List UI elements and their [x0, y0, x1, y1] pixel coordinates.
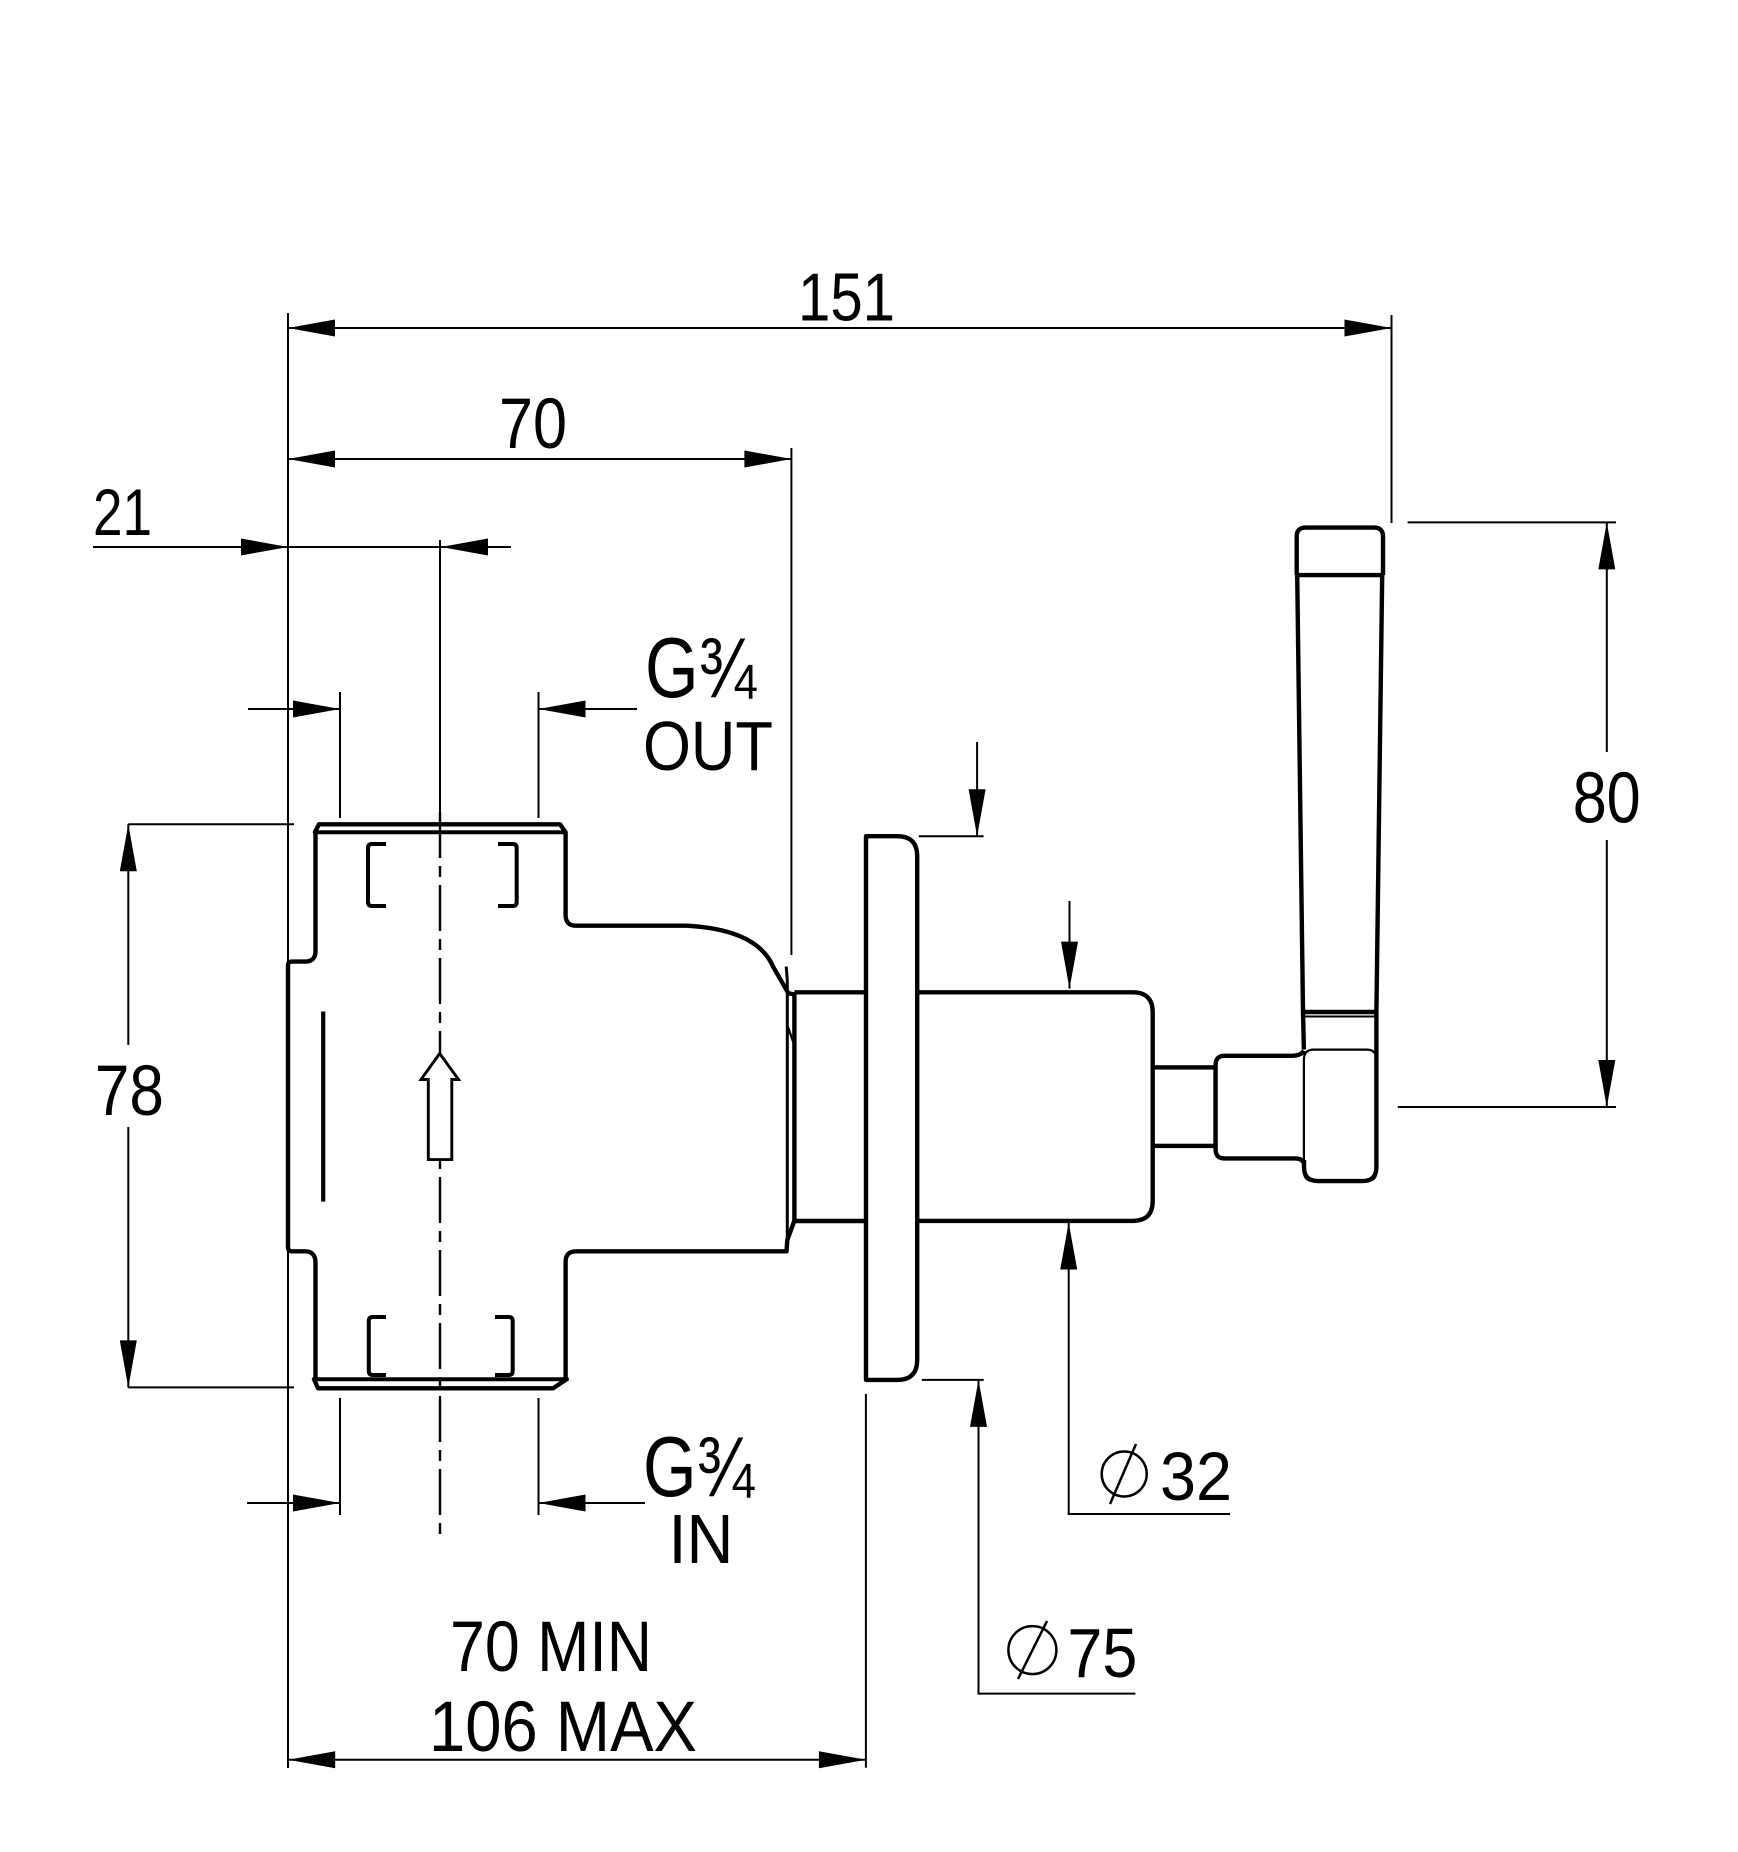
extension line 70 right (body tip) [790, 448, 792, 955]
hub to cap connector bottom [1296, 1158, 1304, 1164]
port centerline (dash-dot) [439, 812, 441, 1540]
svg-text:70 MIN: 70 MIN [450, 1608, 652, 1687]
body tip inner edge [786, 967, 787, 1241]
dimension 80 bottom tick [1398, 1106, 1616, 1108]
dimension G3/4 IN line right part [539, 1502, 646, 1504]
dimension 80 line lower segment [1606, 840, 1608, 1107]
handle hub [1216, 1056, 1296, 1159]
wall flange escutcheon [866, 836, 917, 1380]
arrowhead dia32 down [1061, 942, 1078, 989]
arrowhead bottom left [288, 1751, 335, 1768]
svg-text:IN: IN [669, 1500, 734, 1578]
dimension 151 line [288, 327, 1392, 329]
arrowhead dia75 up [970, 1380, 987, 1427]
arrowhead 78 up [120, 824, 137, 871]
arrowhead OUT right [539, 701, 586, 718]
dimension 78 line upper segment [127, 824, 129, 1045]
hidden thread bracket top-left [368, 844, 386, 906]
dia32 top arrow line [1069, 901, 1071, 989]
lever shaft right edge [1376, 575, 1382, 1012]
lever bottom cap thick lower edge [1304, 1012, 1376, 1181]
dimension 78 bottom tick [128, 1386, 294, 1388]
lever joint thin line [1303, 1016, 1376, 1018]
valve body outline [288, 824, 794, 1388]
body inner face line [321, 1012, 325, 1202]
extension line 151 right (lever top) [1391, 315, 1393, 523]
arrowhead IN right [539, 1495, 586, 1512]
arrowhead IN left [293, 1495, 340, 1512]
arrowhead bottom right [819, 1751, 866, 1768]
hidden thread bracket top-right [498, 844, 517, 906]
lever top cap joint line [1297, 573, 1383, 577]
dia75 diameter symbol [1008, 1626, 1056, 1674]
extension line left reference (body left face) [287, 313, 289, 1768]
dia75 leader line [979, 1380, 1136, 1694]
svg-text:78: 78 [95, 1052, 164, 1131]
svg-text:151: 151 [798, 260, 895, 336]
extension line OUT port left [339, 692, 341, 818]
svg-text:75: 75 [1067, 1614, 1137, 1692]
arrowhead OUT left [293, 701, 340, 718]
svg-text:80: 80 [1573, 759, 1641, 839]
arrowhead dia32 up [1060, 1223, 1077, 1270]
lever shaft left edge [1297, 575, 1304, 1050]
dimension 70 line [288, 458, 791, 460]
arrowhead 70 right [744, 451, 791, 468]
lever top cap [1297, 528, 1383, 576]
arrowhead 21 right (outside, pointing left at centerline) [441, 539, 488, 556]
dia32 leader line [1069, 1223, 1230, 1515]
extension line OUT port right [538, 692, 540, 818]
dimension 78 line lower segment [127, 1127, 129, 1387]
extension line port centerline (solid upper part) [439, 540, 441, 812]
arrowhead 78 down [120, 1340, 137, 1387]
body bottom lip seam [316, 1377, 567, 1381]
arrowhead 151 left [288, 320, 335, 337]
body top lip seam [316, 830, 566, 834]
dimension 80 top tick [1408, 521, 1616, 523]
lever bottom cap (thin outline) [1304, 1050, 1377, 1182]
dimension G3/4 OUT line left part [248, 708, 340, 710]
dimension G3/4 IN line left part [247, 1502, 340, 1504]
spindle pipe top edge [794, 990, 866, 994]
dimension G3/4 OUT line right part [539, 708, 638, 710]
svg-text:OUT: OUT [643, 707, 773, 785]
dia75 top arrow line [976, 742, 978, 836]
arrowhead dia75 down [969, 789, 986, 836]
dimension 70min/106max line [288, 1759, 866, 1761]
handle stem [1153, 1067, 1216, 1146]
extension line IN port right [538, 1398, 540, 1515]
dia75 bottom tick [922, 1379, 984, 1381]
svg-text:G¾: G¾ [645, 621, 757, 716]
hidden thread bracket bottom-left [369, 1317, 386, 1375]
arrowhead 21 left (outside, pointing right at ref line) [241, 539, 288, 556]
dia32 diameter symbol [1102, 1452, 1147, 1497]
arrowhead 80 down [1598, 1060, 1615, 1107]
svg-text:21: 21 [93, 475, 152, 549]
svg-text:70: 70 [499, 385, 567, 464]
extension line wall face [865, 1394, 867, 1768]
svg-text:106 MAX: 106 MAX [429, 1688, 697, 1767]
extension line IN port left [339, 1398, 341, 1515]
dimension 78 top tick [128, 823, 294, 825]
dimension 21 line [93, 546, 511, 548]
arrowhead 80 up [1598, 522, 1615, 569]
dia75 top tick [919, 835, 984, 837]
flow direction arrow [421, 1054, 459, 1160]
arrowhead 70 left [288, 451, 335, 468]
spindle pipe bottom edge [794, 1219, 866, 1223]
lever joint line [1303, 1010, 1377, 1014]
svg-text:32: 32 [1160, 1438, 1232, 1515]
cartridge cylinder [917, 992, 1152, 1221]
arrowhead 151 right [1345, 320, 1392, 337]
body tip chamfer tick [788, 1026, 795, 1044]
hidden thread bracket bottom-right [495, 1317, 513, 1375]
dimension 80 line upper segment [1606, 522, 1608, 752]
hub to cap connector top [1293, 1051, 1304, 1056]
